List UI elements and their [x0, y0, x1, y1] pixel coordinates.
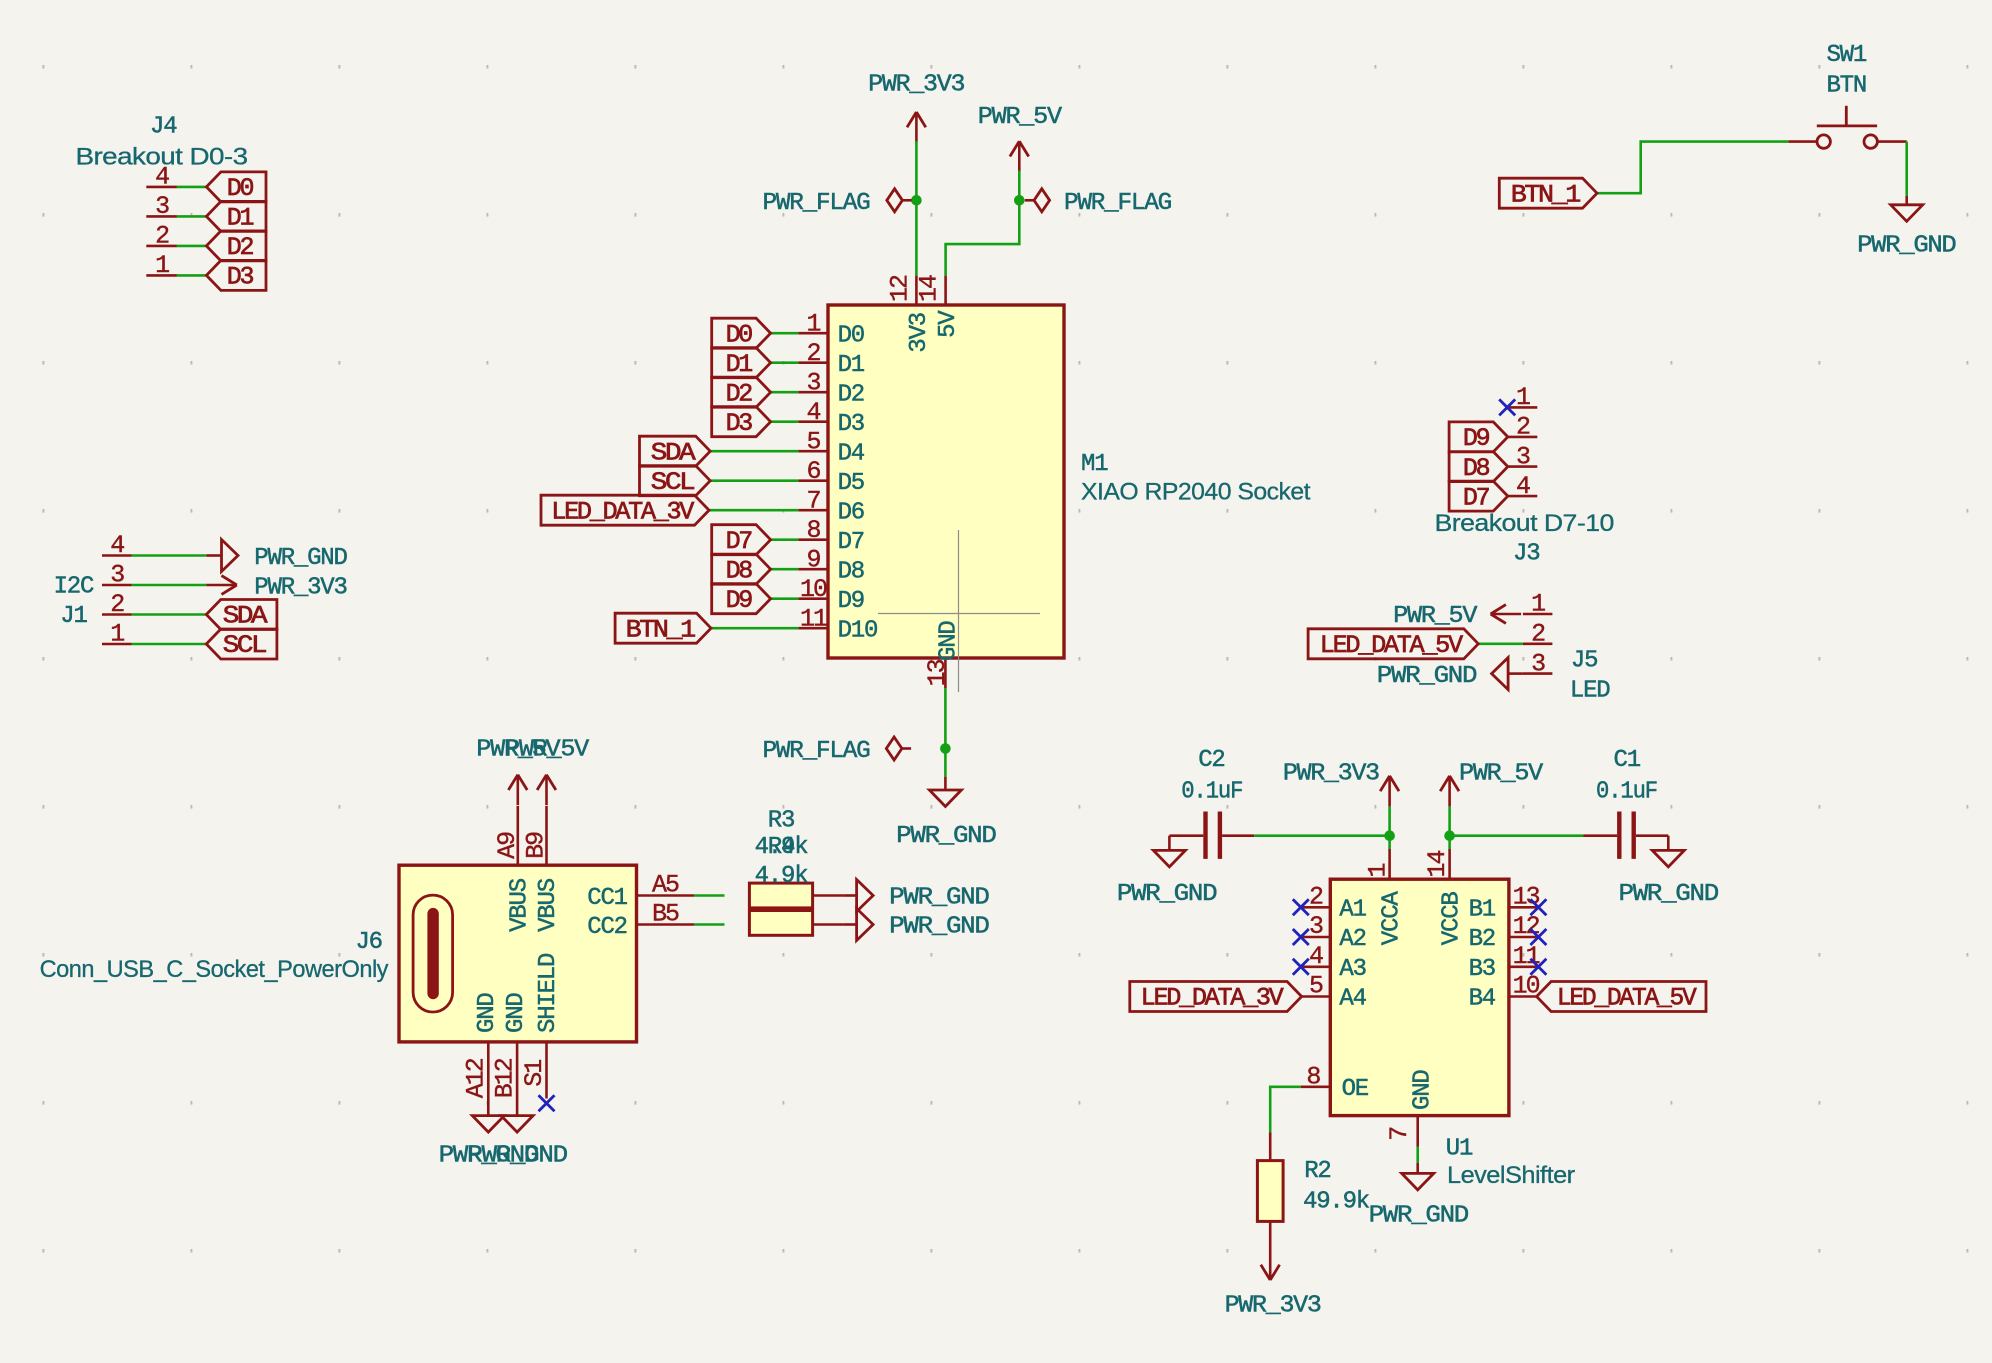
global label D9 at J3: [1449, 422, 1508, 453]
svg-text:4: 4: [1516, 472, 1530, 501]
J4 pin 2 with wire and pin number: [146, 222, 206, 251]
svg-text:5V: 5V: [935, 310, 962, 338]
svg-text:BTN: BTN: [1826, 73, 1866, 100]
svg-text:XIAO RP2040 Socket: XIAO RP2040 Socket: [1081, 479, 1311, 506]
svg-text:B5: B5: [652, 900, 679, 929]
junction at VCCA: [1384, 830, 1395, 841]
svg-text:6: 6: [806, 457, 820, 486]
R3 R4 reference and value texts (overlapping): [755, 807, 809, 890]
svg-text:PWR_FLAG: PWR_FLAG: [1064, 190, 1171, 217]
global label LED_DATA_5V at U1: [1537, 982, 1706, 1013]
power symbol PWR_GND at R3: [843, 880, 989, 912]
power flag PWR_FLAG on GND: [763, 737, 912, 765]
svg-text:J6: J6: [355, 929, 381, 956]
svg-text:4: 4: [806, 398, 820, 427]
global label D8 at J3: [1449, 452, 1508, 483]
global label D2: [206, 231, 266, 262]
J4 pin 4 with wire and pin number: [146, 163, 206, 192]
svg-text:3: 3: [806, 369, 820, 398]
M1 pin 4 (D3): [798, 398, 864, 438]
svg-text:LED_DATA_5V: LED_DATA_5V: [1557, 984, 1697, 1013]
svg-text:A5: A5: [652, 871, 679, 900]
J6 pin A12 (GND): [462, 993, 502, 1116]
R2 reference and value text: [1303, 1158, 1370, 1215]
svg-text:Conn_USB_C_Socket_PowerOnly: Conn_USB_C_Socket_PowerOnly: [40, 956, 389, 983]
svg-text:1: 1: [806, 310, 820, 339]
wire PWR_3V3 to M1 pin 12: [915, 141, 918, 276]
connector J6 USB-C body: [399, 865, 637, 1042]
svg-text:PWR_GND: PWR_GND: [1377, 663, 1477, 690]
svg-text:D3: D3: [726, 409, 753, 438]
J3 pin 2 line and number: [1508, 413, 1538, 442]
U1 pin 14 (VCCB) top pin: [1423, 849, 1466, 945]
svg-text:PWR_GND: PWR_GND: [254, 545, 347, 572]
svg-text:PWR_3V3: PWR_3V3: [868, 72, 964, 99]
power symbol PWR_3V3 at J1 pin 3: [206, 575, 346, 602]
svg-text:D1: D1: [726, 350, 753, 379]
U1 pin 7 (GND) bottom pin: [1385, 1070, 1436, 1147]
J3 pin 1 with no-connect: [1499, 383, 1537, 415]
M1 pin 5 (D4): [798, 428, 865, 468]
svg-text:12: 12: [885, 275, 914, 302]
svg-text:J5: J5: [1571, 647, 1597, 674]
power symbol PWR_5V at J5 pin 1: [1393, 603, 1521, 630]
global label D2 at M1: [712, 377, 799, 408]
svg-text:D0: D0: [838, 323, 864, 350]
svg-text:13: 13: [923, 659, 952, 686]
svg-text:D5: D5: [838, 470, 864, 497]
global label D1 at M1: [712, 348, 799, 379]
svg-text:PWR_GND: PWR_GND: [467, 1143, 567, 1170]
svg-text:1: 1: [110, 620, 124, 649]
svg-text:D3: D3: [838, 411, 864, 438]
wire M1 pin 13 to ground: [944, 688, 947, 777]
global label SCL at J1: [206, 629, 277, 660]
J6 reference and value text: [40, 929, 389, 983]
svg-text:D2: D2: [227, 233, 254, 262]
connector J4 reference and value text: [76, 114, 248, 171]
svg-text:D3: D3: [227, 263, 254, 292]
power symbol PWR_3V3 above M1: [868, 72, 964, 143]
junction at VCCB: [1444, 830, 1455, 841]
svg-text:D8: D8: [726, 556, 753, 585]
J4 pin 3 with wire and pin number: [146, 192, 206, 221]
power symbol PWR_GND at C1: [1619, 836, 1719, 908]
svg-text:D9: D9: [838, 588, 864, 615]
svg-text:SCL: SCL: [223, 631, 267, 660]
svg-text:GND: GND: [503, 993, 530, 1033]
capacitor C2: [1169, 812, 1254, 859]
power symbol PWR_GND at J6 pin B12: [501, 1116, 533, 1133]
svg-text:0.1uF: 0.1uF: [1181, 779, 1242, 806]
svg-text:A4: A4: [1339, 986, 1366, 1013]
SW1 pin 1 stub: [1788, 140, 1817, 143]
IC M1 XIAO RP2040 Socket body: [828, 305, 1064, 658]
global label BTN_1 at M1: [615, 613, 798, 644]
C2 reference and value text: [1181, 747, 1242, 806]
power symbol PWR_GND at C2: [1117, 836, 1217, 908]
svg-text:D2: D2: [726, 379, 753, 408]
J6 pin A9 (VBUS) with PWR_5V arrow: [493, 775, 533, 932]
C1 reference and value text: [1596, 747, 1657, 806]
svg-text:1: 1: [155, 251, 169, 280]
global label SCL at M1: [640, 466, 799, 497]
U1 pin 10 (B4): [1469, 972, 1540, 1013]
wire C2 to VCCA: [1254, 834, 1390, 837]
svg-text:5: 5: [806, 428, 820, 457]
J3 pin 4 line and number: [1508, 472, 1538, 501]
power symbol PWR_GND below M1: [896, 777, 996, 850]
U1 pin 12 (B2) with no-connect: [1469, 912, 1547, 953]
svg-text:D7: D7: [838, 529, 864, 556]
svg-text:SCL: SCL: [651, 468, 695, 497]
svg-text:PWR_5V: PWR_5V: [978, 104, 1063, 131]
svg-text:3V3: 3V3: [906, 313, 933, 353]
svg-text:J4: J4: [150, 114, 177, 141]
svg-text:CC2: CC2: [587, 914, 627, 941]
global label LED_DATA_3V at M1: [541, 495, 798, 526]
svg-text:GND: GND: [1409, 1070, 1436, 1110]
svg-text:B1: B1: [1469, 897, 1496, 924]
svg-text:2: 2: [1531, 620, 1545, 649]
svg-text:VBUS: VBUS: [535, 878, 562, 932]
J6 pin S1 (SHIELD) with no-connect: [520, 953, 562, 1111]
power symbol PWR_GND below U1: [1369, 1163, 1469, 1230]
svg-text:SW1: SW1: [1826, 42, 1866, 69]
global label D7 at M1: [712, 525, 799, 556]
svg-text:PWR_FLAG: PWR_FLAG: [763, 190, 870, 217]
power symbol PWR_5V above M1: [978, 104, 1063, 172]
svg-text:SHIELD: SHIELD: [535, 953, 562, 1033]
J5 pin 1 line and number: [1523, 590, 1553, 619]
J1 pin 3 with wire and pin number: [102, 561, 206, 590]
svg-text:LED_DATA_5V: LED_DATA_5V: [1320, 631, 1463, 660]
power symbol PWR_GND at R4: [843, 909, 989, 941]
svg-text:D8: D8: [1463, 454, 1490, 483]
J5 pin 2 line and number: [1478, 620, 1552, 649]
J3 pin 3 line and number: [1508, 442, 1538, 471]
power symbol PWR_5V above U1: [1440, 760, 1544, 849]
svg-text:Breakout D7-10: Breakout D7-10: [1435, 510, 1614, 537]
R3 right pin to ground: [813, 894, 844, 897]
U1 pin 8 (OE): [1301, 1062, 1369, 1103]
svg-text:4: 4: [110, 531, 124, 560]
power symbol PWR_3V3 below R2: [1225, 1221, 1321, 1319]
svg-text:LED: LED: [1570, 677, 1610, 704]
svg-text:A3: A3: [1339, 956, 1365, 983]
svg-text:D4: D4: [838, 441, 865, 468]
connector J1 reference and value text: [54, 573, 94, 630]
svg-text:2: 2: [1309, 882, 1323, 911]
svg-text:PWR_5V: PWR_5V: [505, 737, 590, 764]
J5 pin 3 line and number: [1523, 649, 1553, 678]
PWR_GND net names below J6 (overlapping): [439, 1143, 568, 1170]
svg-text:14: 14: [1423, 850, 1452, 877]
svg-text:PWR_5V: PWR_5V: [1459, 760, 1544, 787]
svg-text:D6: D6: [838, 500, 864, 527]
svg-text:SDA: SDA: [651, 438, 696, 467]
R2 top pin: [1269, 1133, 1272, 1161]
PWR_5V net names above J6 (overlapping): [476, 737, 590, 764]
svg-text:7: 7: [806, 487, 820, 516]
M1 pin 13 (GND) bottom pin: [923, 621, 963, 688]
resistor R4 body: [749, 911, 812, 936]
wire BTN_1 to SW1: [1597, 142, 1788, 194]
global label SDA at M1: [640, 436, 799, 467]
J6 pin A5 (CC1): [587, 871, 724, 913]
svg-text:10: 10: [800, 575, 827, 604]
svg-text:4: 4: [1309, 942, 1323, 971]
M1 pin 3 (D2): [798, 369, 864, 409]
svg-text:OE: OE: [1342, 1076, 1369, 1103]
svg-text:J1: J1: [60, 603, 87, 630]
U1 pin 5 (A4): [1301, 972, 1367, 1013]
editor crosshair cursor: [878, 530, 1040, 692]
svg-text:D1: D1: [227, 204, 254, 233]
svg-text:PWR_5V: PWR_5V: [1393, 603, 1478, 630]
svg-text:4.9k: 4.9k: [755, 834, 809, 861]
U1 pin 1 (VCCA) top pin: [1364, 849, 1406, 945]
global label D7 at J3: [1449, 481, 1508, 512]
svg-text:PWR_GND: PWR_GND: [1117, 881, 1217, 908]
svg-text:LED_DATA_3V: LED_DATA_3V: [551, 497, 694, 526]
J6 pin B5 (CC2): [587, 900, 724, 942]
global label D0: [206, 172, 266, 203]
power symbol PWR_3V3 above U1: [1283, 760, 1399, 849]
junction at 5V net: [1014, 195, 1025, 206]
J4 pin 1 with wire and pin number: [146, 251, 206, 280]
svg-text:PWR_3V3: PWR_3V3: [254, 575, 346, 602]
global label BTN_1 at SW1: [1499, 178, 1597, 209]
svg-text:1: 1: [1531, 590, 1545, 619]
svg-text:2: 2: [110, 590, 124, 619]
svg-text:2: 2: [1516, 413, 1530, 442]
USB-C receptacle glyph: [413, 895, 453, 1012]
svg-text:D7: D7: [1463, 483, 1490, 512]
M1 reference and value text: [1081, 451, 1311, 506]
J6 pin B12 (GND): [490, 993, 530, 1116]
IC U1 LevelShifter body: [1330, 879, 1509, 1115]
svg-text:U1: U1: [1446, 1136, 1473, 1163]
svg-text:PWR_3V3: PWR_3V3: [1225, 1293, 1321, 1320]
svg-text:R3: R3: [768, 807, 794, 834]
svg-text:VCCA: VCCA: [1378, 891, 1405, 946]
svg-text:4.9k: 4.9k: [755, 863, 809, 890]
svg-text:PWR_GND: PWR_GND: [1619, 881, 1719, 908]
resistor R3 body: [749, 883, 812, 908]
power symbol PWR_GND at J5 pin 3: [1377, 658, 1523, 690]
svg-text:BTN_1: BTN_1: [626, 615, 695, 644]
svg-text:7: 7: [1385, 1127, 1414, 1141]
svg-text:C1: C1: [1614, 747, 1641, 774]
wire OE to R2: [1270, 1087, 1301, 1133]
svg-text:3: 3: [155, 192, 169, 221]
M1 pin 11 (D10): [798, 605, 877, 645]
svg-text:11: 11: [1513, 942, 1540, 971]
svg-text:S1: S1: [520, 1060, 549, 1087]
svg-text:3: 3: [1309, 912, 1323, 941]
J1 pin 4 with wire and pin number: [102, 531, 206, 560]
svg-text:8: 8: [806, 516, 820, 545]
svg-text:PWR_3V3: PWR_3V3: [1283, 760, 1379, 787]
resistor R2 body: [1257, 1161, 1283, 1222]
U1 pin 3 (A2) with no-connect: [1293, 912, 1366, 953]
svg-text:8: 8: [1306, 1062, 1320, 1091]
global label D1: [206, 201, 266, 232]
U1 pin 11 (B3) with no-connect: [1469, 942, 1547, 983]
J6 pin B9 (VBUS) with PWR_5V arrow: [522, 775, 562, 932]
svg-text:12: 12: [1513, 912, 1540, 941]
power flag PWR_FLAG on 3V3: [763, 189, 912, 217]
svg-text:I2C: I2C: [54, 573, 94, 600]
J1 pin 1 with wire and pin number: [102, 620, 206, 649]
global label D9 at M1: [712, 584, 799, 615]
junction at 3V3 net: [911, 195, 922, 206]
wire C1 to VCCB: [1450, 834, 1584, 837]
svg-text:LevelShifter: LevelShifter: [1447, 1162, 1575, 1189]
svg-text:11: 11: [800, 605, 827, 634]
wire U1 GND pin to ground: [1416, 1147, 1419, 1163]
junction at GND net: [940, 743, 951, 754]
svg-text:PWR_FLAG: PWR_FLAG: [763, 738, 870, 765]
J3 reference and value text: [1435, 510, 1614, 567]
power flag PWR_FLAG on 5V: [1025, 189, 1171, 217]
svg-text:R2: R2: [1304, 1158, 1330, 1185]
svg-text:M1: M1: [1081, 451, 1108, 478]
M1 pin 2 (D1): [798, 339, 865, 379]
svg-text:D9: D9: [726, 586, 753, 615]
svg-text:LED_DATA_3V: LED_DATA_3V: [1141, 984, 1284, 1013]
svg-text:1: 1: [1364, 864, 1393, 878]
M1 pin 7 (D6): [798, 487, 864, 527]
svg-text:VBUS: VBUS: [506, 878, 533, 932]
svg-text:5: 5: [1309, 972, 1323, 1001]
M1 pin 9 (D8): [798, 546, 864, 586]
R4 right pin to ground: [813, 923, 844, 926]
M1 pin 10 (D9): [798, 575, 864, 615]
U1 pin 13 (B1) with no-connect: [1469, 882, 1547, 923]
svg-text:D9: D9: [1463, 424, 1490, 453]
svg-text:D0: D0: [227, 174, 254, 203]
power symbol PWR_GND at J6 pin A12: [472, 1116, 504, 1133]
global label SDA at J1: [206, 600, 277, 631]
svg-text:A1: A1: [1339, 897, 1366, 924]
global label D3: [206, 260, 266, 291]
M1 pin 8 (D7): [798, 516, 864, 556]
svg-text:D0: D0: [726, 320, 753, 349]
M1 pin 14 (5V) top pin: [915, 275, 963, 338]
global label D8 at M1: [712, 554, 799, 585]
U1 pin 4 (A3) with no-connect: [1293, 942, 1366, 983]
svg-text:PWR_GND: PWR_GND: [889, 885, 989, 912]
J1 pin 2 with wire and pin number: [102, 590, 206, 619]
svg-text:14: 14: [915, 275, 944, 302]
svg-text:13: 13: [1513, 882, 1540, 911]
svg-text:VCCB: VCCB: [1438, 892, 1465, 946]
svg-text:2: 2: [806, 339, 820, 368]
svg-text:B2: B2: [1469, 926, 1495, 953]
M1 pin 1 (D0): [798, 310, 864, 350]
svg-text:0.1uF: 0.1uF: [1596, 779, 1657, 806]
svg-text:BTN_1: BTN_1: [1511, 180, 1580, 209]
svg-text:CC1: CC1: [587, 885, 627, 912]
svg-text:PWR_GND: PWR_GND: [1369, 1202, 1469, 1229]
SW1 reference and value text: [1826, 42, 1866, 100]
capacitor C1: [1584, 812, 1669, 859]
M1 pin 6 (D5): [798, 457, 864, 497]
global label LED_DATA_5V at J5: [1308, 629, 1478, 660]
U1 reference and value text: [1446, 1136, 1575, 1189]
svg-text:PWR_GND: PWR_GND: [1857, 233, 1956, 260]
svg-text:SDA: SDA: [223, 602, 268, 631]
svg-text:B3: B3: [1469, 956, 1495, 983]
J5 reference and value text: [1570, 647, 1610, 704]
svg-text:49.9k: 49.9k: [1303, 1188, 1370, 1215]
power symbol PWR_GND at J1 pin 4: [206, 540, 347, 573]
svg-text:D8: D8: [838, 559, 864, 586]
svg-text:D2: D2: [838, 382, 864, 409]
svg-text:A9: A9: [493, 832, 522, 859]
svg-text:1: 1: [1516, 383, 1530, 412]
svg-text:PWR_GND: PWR_GND: [896, 823, 996, 850]
svg-text:A2: A2: [1339, 926, 1365, 953]
switch SW1 BTN: [1817, 106, 1878, 149]
svg-text:A12: A12: [462, 1058, 491, 1098]
global label D0 at M1: [712, 318, 799, 349]
svg-text:J3: J3: [1513, 540, 1539, 567]
svg-text:PWR_GND: PWR_GND: [889, 914, 989, 941]
svg-text:B4: B4: [1469, 986, 1496, 1013]
wire PWR_5V to M1 pin 14: [946, 171, 1020, 276]
svg-text:9: 9: [806, 546, 820, 575]
power symbol PWR_GND below SW1: [1857, 196, 1956, 260]
svg-text:D10: D10: [838, 618, 878, 645]
svg-text:D1: D1: [838, 352, 865, 379]
svg-text:3: 3: [1516, 442, 1530, 471]
svg-text:GND: GND: [474, 993, 501, 1033]
svg-text:2: 2: [155, 222, 169, 251]
svg-text:B9: B9: [522, 832, 551, 859]
global label LED_DATA_3V at U1: [1130, 982, 1302, 1013]
svg-text:3: 3: [1531, 649, 1545, 678]
svg-text:C2: C2: [1198, 747, 1224, 774]
M1 pin 12 (3V3) top pin: [885, 275, 933, 353]
wire SW1 to ground: [1905, 142, 1908, 196]
svg-text:4: 4: [155, 163, 169, 192]
svg-text:B12: B12: [490, 1058, 519, 1098]
U1 pin 2 (A1) with no-connect: [1293, 882, 1367, 923]
global label D3 at M1: [712, 407, 799, 438]
svg-text:D7: D7: [726, 527, 753, 556]
svg-text:3: 3: [110, 561, 124, 590]
SW1 pin 2 stub: [1877, 140, 1906, 143]
